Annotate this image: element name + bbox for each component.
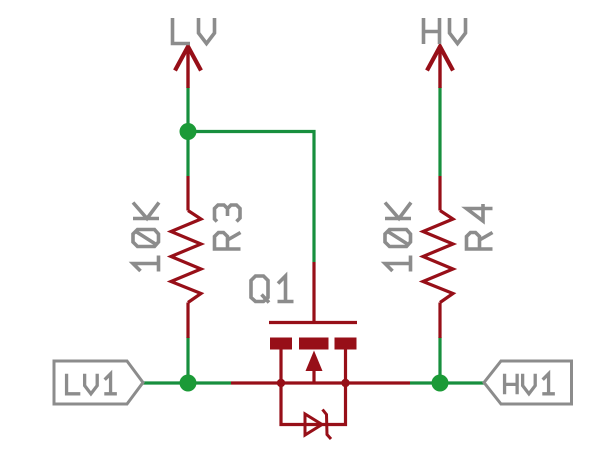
wire net LV1 to Q1 source <box>143 381 231 384</box>
symbol junction source <box>277 379 285 387</box>
source-drain link <box>281 381 346 384</box>
resistor R4 <box>423 176 453 338</box>
name R3 <box>215 205 241 249</box>
body zener diode <box>305 414 322 435</box>
label Q1 <box>251 276 294 303</box>
wire below R4 <box>438 337 441 383</box>
label HV <box>424 18 466 44</box>
body loop <box>281 383 346 425</box>
label HV1 <box>505 374 555 394</box>
pin flag LV1 <box>54 361 143 404</box>
wire LV rail upper <box>186 87 189 176</box>
pin flag HV1 <box>484 361 572 404</box>
drain pin <box>344 349 347 383</box>
gate lead <box>312 262 315 321</box>
junction at LV rail / gate branch <box>180 123 197 140</box>
symbol junction drain <box>341 379 349 387</box>
label LV <box>173 18 215 44</box>
resistor R3 <box>171 176 201 338</box>
source pin <box>279 349 282 383</box>
transistor Q1 (N-MOSFET with body zener) <box>231 262 410 439</box>
wire HV rail upper <box>438 87 441 176</box>
gate bar <box>269 321 357 324</box>
wire LV branch to gate <box>188 132 314 263</box>
supply symbol LV <box>175 46 201 88</box>
wire net Q1 drain to HV1 <box>410 381 484 384</box>
name R4 <box>467 204 493 249</box>
value 10K of R3 <box>133 203 159 272</box>
label LV1 <box>67 374 117 394</box>
supply symbol HV <box>427 46 453 88</box>
value 10K of R4 <box>385 203 411 272</box>
junction at LV rail / signal line <box>180 375 197 392</box>
wire below R3 <box>186 337 189 383</box>
substrate arrow <box>306 351 323 372</box>
junction at HV rail / signal line <box>432 375 449 392</box>
channel rects <box>270 338 292 350</box>
